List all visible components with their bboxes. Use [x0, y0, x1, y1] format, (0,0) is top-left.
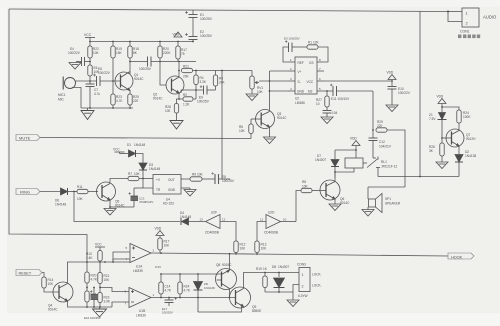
- svg-text:220K: 220K: [163, 51, 171, 55]
- wire Q9 collector to lock: [244, 273, 300, 289]
- capacitor C17: [165, 297, 178, 306]
- svg-text:1N4148: 1N4148: [204, 286, 215, 290]
- relay RL1 coil: [345, 158, 363, 168]
- wire hook sense rail: [378, 176, 459, 178]
- diode D5: [197, 274, 199, 281]
- wire lock ground row: [265, 285, 299, 293]
- diode D3: [139, 163, 147, 179]
- svg-text:12: 12: [222, 218, 226, 222]
- svg-text:R21: R21: [183, 65, 189, 69]
- power VCC mic stage: [84, 33, 95, 42]
- capacitor C6: [93, 74, 100, 87]
- wire U2 pin2 branch: [270, 70, 289, 72]
- ground mic filter: [69, 63, 81, 70]
- svg-text:U2F: U2F: [211, 211, 217, 215]
- svg-text:LOCK.: LOCK.: [312, 284, 322, 288]
- capacitor C1: [185, 11, 198, 18]
- svg-text:CD4069B: CD4069B: [264, 231, 278, 235]
- ground Q3: [264, 137, 276, 144]
- wire R14 to Q4 base: [44, 288, 59, 292]
- wire Q2 emitter: [178, 93, 180, 99]
- wire R18 to Q1 collector: [129, 58, 131, 74]
- ground comparator: [93, 309, 107, 317]
- resistor R2: [183, 97, 193, 101]
- resistor R10: [98, 251, 102, 262]
- transistor Q2: [166, 76, 184, 94]
- svg-text:VDD: VDD: [350, 137, 357, 141]
- svg-text:10K: 10K: [257, 90, 264, 94]
- svg-text:GND: GND: [297, 90, 305, 94]
- svg-text:U1B: U1B: [139, 309, 145, 313]
- resistor R17: [176, 46, 180, 59]
- wire R22 bottom: [89, 58, 91, 65]
- ground Q6: [329, 204, 341, 211]
- svg-text:V+: V+: [298, 70, 302, 74]
- wire top supply rail: [9, 9, 448, 12]
- net MUTE: [16, 135, 40, 141]
- net HOOK: [448, 253, 474, 259]
- net RESET: [16, 270, 42, 276]
- svg-text:10K: 10K: [302, 185, 309, 189]
- svg-text:OUT: OUT: [168, 178, 175, 182]
- svg-text:100K: 100K: [463, 115, 471, 119]
- diode D2: [458, 146, 460, 154]
- svg-text:1N4148: 1N4148: [55, 203, 66, 207]
- wire Q6 emitter: [334, 199, 336, 204]
- svg-text:R8: R8: [302, 180, 306, 184]
- svg-text:U1A: U1A: [136, 265, 143, 269]
- resistor R14: [42, 277, 46, 288]
- wire audio feed vertical: [372, 91, 374, 138]
- wire R26 to signal node: [89, 76, 91, 81]
- svg-text:10K: 10K: [134, 172, 141, 176]
- op-amp IC U2: [288, 57, 324, 105]
- svg-text:9014C: 9014C: [153, 97, 163, 101]
- svg-text:MIC1: MIC1: [58, 93, 66, 97]
- wire RV1 wiper to U2 pin3: [259, 80, 288, 82]
- svg-text:VDD: VDD: [155, 227, 162, 231]
- capacitor C3: [285, 40, 292, 52]
- wire Q8 top to hook rail: [229, 254, 231, 270]
- diode D8: [278, 273, 280, 278]
- net RING: [16, 189, 40, 195]
- resistor R22: [89, 42, 91, 47]
- diode D7: [335, 149, 356, 151]
- resistor R20: [159, 42, 161, 47]
- svg-text:CD4069B: CD4069B: [205, 231, 219, 235]
- capacitor C5 coupling: [130, 57, 196, 67]
- transistor Q9: [230, 287, 251, 308]
- svg-text:3.3K: 3.3K: [200, 80, 207, 84]
- resistor R20b: [86, 262, 88, 272]
- resistor R13: [255, 241, 259, 253]
- wire Q6 collector: [334, 178, 336, 182]
- svg-text:100/22V: 100/22V: [398, 91, 411, 95]
- svg-text:RESET: RESET: [19, 272, 32, 276]
- wire ring to flipflop: [74, 192, 180, 222]
- wire Q5 emitter: [109, 200, 111, 209]
- wire R8 from inverter: [296, 191, 301, 222]
- svg-text:9014C: 9014C: [277, 116, 287, 120]
- wire coil bottom to Q6: [335, 168, 354, 178]
- wire Q4 emitter: [68, 301, 113, 307]
- svg-text:6.3YW: 6.3YW: [298, 294, 308, 298]
- zener Z1: [438, 113, 447, 139]
- resistor R17b: [158, 238, 162, 250]
- ground zobel: [321, 117, 333, 124]
- svg-text:S-: S-: [298, 80, 301, 84]
- svg-text:R19: R19: [256, 267, 262, 271]
- svg-text:9014C: 9014C: [48, 308, 58, 312]
- wire Q2 base feed: [160, 62, 167, 86]
- svg-text:4.7K: 4.7K: [91, 278, 98, 282]
- wire VDD to R24: [442, 107, 459, 110]
- resistor R26 mic bias: [88, 65, 92, 76]
- svg-text:D8: D8: [272, 265, 276, 269]
- svg-text:13: 13: [200, 218, 204, 222]
- resistor R26: [441, 138, 443, 143]
- wire Q3 emitter: [269, 127, 271, 137]
- resistor R4: [195, 71, 197, 76]
- svg-text:15K: 15K: [116, 51, 123, 55]
- svg-text:1N4007: 1N4007: [315, 158, 326, 162]
- capacitor C12: [369, 138, 378, 158]
- svg-text:SP1: SP1: [385, 197, 391, 201]
- svg-text:104/21V: 104/21V: [379, 145, 392, 149]
- svg-text:10K: 10K: [48, 282, 55, 286]
- resistor R24a: [160, 274, 162, 282]
- capacitor C14 zobel: [323, 107, 332, 117]
- resistor R27 zobel: [326, 91, 328, 96]
- svg-text:75: 75: [181, 52, 185, 56]
- connector CON3 LOCK: [297, 263, 322, 299]
- svg-text:10K: 10K: [261, 247, 268, 251]
- ground Q5: [104, 209, 116, 216]
- wire comparator divider: [99, 262, 101, 273]
- wire Q4 collector rail: [68, 262, 131, 284]
- svg-text:MUTE: MUTE: [19, 136, 31, 141]
- svg-text:VDD: VDD: [437, 95, 444, 99]
- resistor R21: [182, 68, 193, 72]
- ground Q2 emitter: [170, 121, 183, 130]
- svg-text:9015C: 9015C: [222, 263, 232, 267]
- wire U2F out to R12: [220, 222, 236, 242]
- svg-text:10: 10: [316, 102, 320, 106]
- resistor R15: [112, 42, 114, 47]
- svg-text:LM339: LM339: [133, 269, 143, 273]
- wire Q5 collector to R7: [110, 179, 128, 184]
- svg-text:VCC: VCC: [95, 243, 102, 247]
- svg-text:E16 100/25V: E16 100/25V: [84, 316, 101, 320]
- wire U4 out: [181, 178, 190, 180]
- wire U2 pin6 supply: [324, 80, 392, 82]
- svg-text:100/22V: 100/22V: [98, 71, 111, 75]
- wire cap to Q1 base: [100, 80, 121, 82]
- op-amp U1A: [130, 244, 151, 263]
- svg-text:1.2K: 1.2K: [183, 103, 190, 107]
- svg-text:10K: 10K: [93, 51, 100, 55]
- transistor Q7: [442, 129, 464, 147]
- svg-text:U2: U2: [295, 97, 299, 101]
- svg-text:C12: C12: [379, 140, 385, 144]
- relay RL1 contacts: [363, 157, 380, 177]
- svg-text:2: 2: [302, 285, 304, 289]
- svg-text:10K: 10K: [240, 247, 247, 251]
- svg-text:HOOK: HOOK: [451, 255, 463, 259]
- resistor R19: [264, 273, 266, 277]
- svg-text:1N4007: 1N4007: [278, 265, 289, 269]
- wire C2 to rail: [192, 40, 194, 42]
- svg-text:7.5V: 7.5V: [429, 117, 436, 121]
- svg-text:D1: D1: [127, 143, 131, 147]
- resistor R3: [215, 71, 217, 76]
- wire output row junctions: [197, 297, 199, 299]
- svg-text:SPEAKER: SPEAKER: [385, 202, 401, 206]
- wire mic ground rail: [81, 107, 133, 109]
- svg-text:E11 100/10V: E11 100/10V: [331, 97, 350, 101]
- svg-text:220: 220: [377, 124, 383, 128]
- resistor R7: [128, 176, 139, 180]
- svg-text:100/25V: 100/25V: [162, 311, 173, 315]
- capacitor C8: [212, 172, 219, 184]
- svg-text:R7: R7: [128, 172, 132, 176]
- svg-text:R9: R9: [192, 173, 196, 177]
- wire Q2 collector: [178, 62, 180, 78]
- capacitor C9: [181, 86, 216, 95]
- diode D4: [181, 218, 205, 225]
- svg-text:U2D: U2D: [268, 211, 275, 215]
- transistor Q3: [251, 110, 275, 129]
- ground mic stage: [81, 108, 94, 120]
- svg-text:11: 11: [260, 218, 263, 222]
- svg-text:RL1: RL1: [381, 160, 387, 164]
- svg-text:GND: GND: [168, 188, 176, 192]
- svg-text:REF: REF: [298, 61, 304, 65]
- wire right long vertical: [419, 12, 421, 177]
- ground lock: [287, 300, 299, 307]
- svg-text:1N4148: 1N4148: [149, 167, 160, 171]
- transistor Q1: [115, 72, 133, 91]
- svg-text:100/25V: 100/25V: [197, 100, 210, 104]
- svg-text:VCC: VCC: [307, 80, 314, 84]
- svg-text:LOCK.: LOCK.: [312, 273, 322, 277]
- wire speaker feed: [368, 186, 405, 188]
- wire U2 feedback loop: [283, 47, 289, 62]
- svg-text:4.7K: 4.7K: [165, 289, 172, 293]
- svg-text:100: 100: [165, 109, 171, 113]
- svg-text:10: 10: [283, 218, 287, 222]
- melody IC U4: [153, 175, 181, 206]
- op-amp U1B: [129, 288, 151, 308]
- svg-text:TR: TR: [156, 188, 161, 192]
- wire D1 to D3: [136, 154, 144, 163]
- svg-text:9014C: 9014C: [340, 201, 350, 205]
- wire connector branch: [448, 11, 462, 13]
- svg-text:4700P/22V: 4700P/22V: [139, 200, 153, 204]
- svg-text:1N4148: 1N4148: [134, 143, 145, 147]
- svg-text:E3 100/25V: E3 100/25V: [284, 37, 300, 41]
- svg-text:M2: M2: [308, 90, 313, 94]
- svg-text:100/25V: 100/25V: [222, 179, 235, 183]
- wire C1 to C2: [192, 18, 194, 37]
- wire ring audio vertical: [221, 71, 223, 180]
- resistor R1: [307, 45, 318, 49]
- wire U1B inputs: [100, 288, 129, 292]
- wire R29 to speaker branch: [387, 130, 405, 187]
- svg-text:1N4148: 1N4148: [180, 215, 191, 219]
- wire mic stage supply rail: [90, 41, 193, 43]
- svg-text:LM386: LM386: [295, 101, 305, 105]
- svg-text:10K: 10K: [104, 278, 111, 282]
- inverter U2D: [266, 215, 281, 229]
- wire Q3 collector riser: [269, 71, 271, 112]
- svg-text:100/25V: 100/25V: [200, 34, 213, 38]
- wire mic to cap: [76, 80, 97, 82]
- resistor R18: [129, 42, 131, 47]
- wire U2 pin4 branch: [270, 90, 289, 92]
- ground amp supply: [386, 105, 398, 112]
- svg-text:1N4138: 1N4138: [465, 154, 476, 158]
- svg-text:6.0V: 6.0V: [155, 265, 161, 269]
- resistor R23: [111, 94, 115, 105]
- svg-text:9014C: 9014C: [134, 77, 144, 81]
- wire Q1 emitter to R25: [129, 91, 131, 95]
- resistor R8: [301, 188, 312, 192]
- svg-text:R2: R2: [183, 93, 187, 97]
- wire C3 to R1: [292, 46, 307, 48]
- svg-text:CON3: CON3: [297, 263, 306, 267]
- capacitor E4: [76, 57, 90, 66]
- speaker SP1: [369, 194, 383, 213]
- svg-text:3.9K: 3.9K: [104, 300, 111, 304]
- wire U2D input from R13: [257, 222, 266, 242]
- transistor Q6: [320, 180, 340, 200]
- svg-text:VCC: VCC: [84, 33, 92, 37]
- wire R15 to base node: [112, 58, 114, 94]
- svg-text:LM339: LM339: [136, 314, 146, 318]
- diode D1: [120, 150, 136, 157]
- wire latch rail: [161, 273, 222, 275]
- wire U2D out: [281, 221, 297, 223]
- wire Q8 to Q9: [229, 289, 231, 298]
- wire reset to R14: [42, 273, 44, 278]
- wire mic lower terminal: [72, 88, 81, 109]
- capacitor C2: [185, 33, 198, 40]
- node junction top right: [447, 11, 449, 13]
- wire R24 to Q7 collector: [458, 123, 460, 131]
- resistor R28: [177, 99, 180, 104]
- svg-text:VCC: VCC: [113, 148, 120, 152]
- svg-text:9012H: 9012H: [466, 137, 476, 141]
- ground R26: [436, 162, 448, 169]
- svg-text:220: 220: [133, 99, 139, 103]
- wire C8 to volume node: [219, 178, 231, 180]
- svg-text:RING: RING: [20, 190, 30, 195]
- svg-text:104: 104: [332, 111, 338, 115]
- wire output to relay: [337, 90, 374, 92]
- resistor R16: [85, 291, 89, 302]
- svg-text:20K: 20K: [183, 75, 190, 79]
- svg-text:MIC: MIC: [58, 98, 65, 102]
- wire HOOK rail: [151, 253, 448, 256]
- potentiometer RV1: [251, 71, 253, 77]
- svg-text:10K: 10K: [239, 129, 246, 133]
- svg-text:4.7K: 4.7K: [184, 289, 191, 293]
- connector CON1 AUDIO: [458, 8, 497, 38]
- resistor R12: [234, 241, 238, 253]
- svg-text:2.4K: 2.4K: [86, 256, 93, 260]
- svg-text:10K: 10K: [77, 197, 84, 201]
- svg-text:100/25V: 100/25V: [200, 17, 213, 21]
- capacitor C11 output: [330, 84, 337, 96]
- wire TR row extension: [134, 187, 143, 189]
- diode D6: [61, 188, 78, 195]
- wire stub to C1: [192, 10, 194, 14]
- svg-text:4.7K: 4.7K: [116, 99, 123, 103]
- resistor R24: [457, 110, 461, 123]
- resistor R24b: [179, 274, 181, 282]
- svg-text:R1 12K: R1 12K: [308, 41, 320, 45]
- svg-text:GS: GS: [309, 61, 314, 65]
- wire U2 pin5 output: [324, 90, 333, 92]
- wire TR branch: [143, 179, 153, 189]
- wire U1A inputs: [113, 252, 130, 262]
- resistor R11: [77, 189, 88, 193]
- capacitor C16: [90, 288, 98, 308]
- wire MUTE line: [40, 138, 251, 139]
- capacitor C13: [110, 188, 138, 207]
- svg-text:CON1: CON1: [460, 30, 470, 34]
- wire Q9 emitter return: [242, 306, 244, 308]
- ground RV1: [246, 94, 258, 101]
- svg-text:KD-153: KD-153: [163, 202, 174, 206]
- svg-text:100/25V: 100/25V: [139, 67, 152, 71]
- wire U4 gnd: [181, 187, 190, 189]
- ground U4: [184, 190, 196, 197]
- svg-text:VDD: VDD: [387, 71, 394, 75]
- resistor R29: [376, 128, 387, 132]
- capacitor E10 decoupling: [388, 81, 397, 105]
- resistor R21b: [98, 273, 102, 284]
- svg-text:Q8: Q8: [216, 263, 220, 267]
- svg-text:10K: 10K: [197, 173, 204, 177]
- microphone MIC1: [63, 77, 75, 90]
- transistor Q8: [216, 269, 237, 290]
- svg-text:8550E: 8550E: [252, 309, 261, 313]
- ground speaker: [367, 207, 369, 210]
- wire mute to R6: [250, 134, 252, 139]
- wire ring to D6: [40, 191, 60, 193]
- transistor Q5: [97, 182, 116, 201]
- wire Q9 bottom return: [198, 307, 242, 313]
- svg-text:R11: R11: [77, 185, 83, 189]
- transistor Q4: [53, 282, 73, 302]
- capacitor C7: [86, 81, 95, 108]
- svg-text:JRC21F-12: JRC21F-12: [381, 165, 398, 169]
- svg-text:100/22V: 100/22V: [68, 51, 81, 55]
- svg-text:1: 1: [302, 273, 304, 277]
- svg-text:AUDIO: AUDIO: [483, 15, 497, 20]
- wire left border rail: [9, 9, 87, 262]
- resistor R25: [128, 94, 132, 105]
- svg-text:10K: 10K: [164, 244, 171, 248]
- resistor R23b: [98, 293, 102, 303]
- wire R21 to RV1: [193, 70, 253, 72]
- resistor R6: [249, 124, 253, 134]
- svg-text:4.7u: 4.7u: [94, 92, 100, 96]
- wire U1B output row: [151, 297, 236, 299]
- resistor R9: [190, 177, 202, 181]
